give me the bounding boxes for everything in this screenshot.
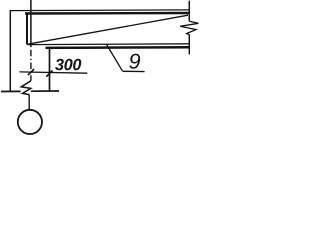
dimension tick at axis — [28, 69, 34, 75]
axis line below break to circle — [28, 95, 30, 110]
diagonal (upper slab tapered bottom edge) — [27, 15, 188, 44]
dimension tick at wall face — [46, 71, 52, 77]
axis line dash-dot part — [30, 50, 32, 81]
top thick horizontal (upper slab shelf) — [25, 12, 190, 15]
position number 9 — [129, 54, 140, 69]
dimension line 300 — [20, 72, 88, 73]
right edge vertical above break — [188, 1, 190, 22]
bottom cut line left segment — [1, 90, 21, 92]
lower slab thin top line — [27, 43, 190, 46]
left break zigzag — [21, 81, 31, 95]
wall inner face below slab — [49, 49, 51, 91]
dimension text 300 — [55, 59, 81, 70]
leader shelf under 9 — [123, 70, 145, 72]
bottom cut line right segment — [31, 90, 59, 92]
top thin horizontal (slab top line) — [10, 9, 190, 12]
leader line of position 9 — [106, 44, 122, 71]
axis line solid upper part — [30, 0, 32, 47]
right edge vertical below break — [188, 35, 190, 55]
right break zigzag — [180, 21, 198, 34]
lower slab thick line — [46, 46, 191, 49]
wall outer face (left vertical) — [9, 10, 11, 91]
axis bubble circle — [18, 110, 42, 134]
upper slab left edge (thick vertical) — [26, 12, 28, 44]
